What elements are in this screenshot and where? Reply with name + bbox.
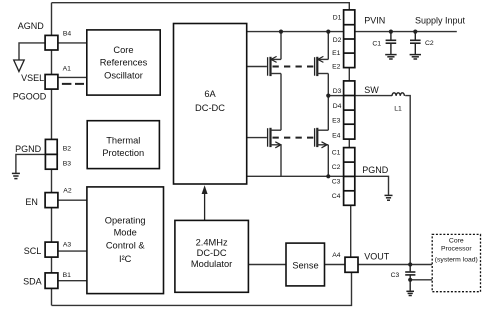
- svg-text:C2: C2: [332, 164, 341, 171]
- junction supply rail C1: [389, 30, 393, 34]
- block U4 6A DC-DC: [174, 24, 247, 185]
- transistor Q3 NMOS low-side phase1: [247, 128, 281, 177]
- svg-text:C3: C3: [332, 179, 341, 186]
- svg-text:A4: A4: [332, 252, 341, 259]
- svg-text:C1: C1: [372, 41, 381, 48]
- wire EN to Operating block: [58, 199, 87, 201]
- pin B1: [45, 273, 58, 289]
- svg-text:PGND: PGND: [362, 165, 389, 175]
- block U2 Thermal Protection: [87, 121, 159, 169]
- transistor Q1 PMOS high-side phase1: [247, 32, 281, 131]
- capacitor C2: [410, 32, 421, 54]
- stem stack3 to pin A4: [350, 205, 352, 257]
- block text 6A DC-DC: [195, 89, 225, 113]
- wire bottom bus: [52, 272, 352, 305]
- svg-text:2.4MHz: 2.4MHz: [196, 238, 228, 248]
- pin A4: [345, 257, 358, 272]
- svg-text:PGOOD: PGOOD: [13, 91, 47, 101]
- ground PGND left symbol: [12, 173, 20, 178]
- svg-text:Processor: Processor: [441, 245, 472, 252]
- svg-text:B1: B1: [63, 272, 72, 279]
- svg-text:Supply Input: Supply Input: [415, 16, 466, 26]
- svg-text:SCL: SCL: [24, 246, 42, 256]
- svg-text:PGND: PGND: [15, 144, 42, 154]
- svg-text:D4: D4: [333, 103, 342, 110]
- arrow modulator to 6A DC-DC: [202, 185, 208, 220]
- svg-text:L1: L1: [394, 105, 402, 112]
- wire A1 to Core References block: [58, 76, 87, 78]
- svg-text:A3: A3: [63, 242, 72, 249]
- wire left bus vertical: [51, 3, 53, 306]
- pin A1: [45, 75, 58, 90]
- svg-text:6A: 6A: [204, 89, 216, 99]
- pin A2: [45, 193, 58, 208]
- wire dashed gate link NMOS pair: [273, 137, 315, 139]
- block text Core References Oscillator: [100, 45, 148, 80]
- svg-text:DC-DC: DC-DC: [197, 248, 227, 258]
- wire PGND pin to ground: [16, 154, 46, 173]
- pin B3: [45, 154, 57, 169]
- svg-text:Protection: Protection: [102, 148, 144, 158]
- pin B2: [45, 139, 57, 154]
- svg-text:E3: E3: [332, 117, 341, 124]
- wire PVIN supply rail (D2 box to Supply Input): [355, 31, 457, 33]
- svg-text:VOUT: VOUT: [364, 251, 390, 261]
- junction C3 bottom return: [408, 278, 412, 282]
- block text Core Processor: [435, 238, 478, 264]
- junction PVIN rail Q2 source: [326, 30, 330, 34]
- wire dashed gate link PMOS pair: [273, 66, 315, 68]
- svg-text:References: References: [100, 58, 148, 68]
- junction node SW: [326, 94, 330, 98]
- svg-text:Oscillator: Oscillator: [104, 71, 143, 81]
- junction PVIN rail Q1 source: [279, 30, 283, 34]
- inductor L1: [392, 93, 404, 96]
- pin B4: [45, 35, 58, 50]
- svg-text:Core: Core: [113, 45, 133, 55]
- svg-text:(systerm load): (systerm load): [435, 257, 478, 264]
- svg-text:Operating: Operating: [105, 216, 146, 226]
- block U1 Core References Oscillator: [87, 30, 160, 95]
- svg-text:Modulator: Modulator: [191, 259, 232, 269]
- ground C2 symbol: [410, 55, 421, 59]
- capacitor C3: [405, 265, 415, 291]
- svg-text:SDA: SDA: [23, 277, 42, 287]
- svg-text:E2: E2: [332, 63, 341, 70]
- junction node VOUT C3 top: [408, 262, 412, 266]
- wire modulator to Sense: [248, 264, 286, 266]
- wire B4 to Core References block: [58, 42, 87, 44]
- svg-text:Control &: Control &: [106, 241, 146, 251]
- block U5 2.4MHz DC-DC Modulator: [175, 220, 249, 292]
- block U6 Sense: [286, 243, 325, 286]
- pin A3: [45, 242, 58, 257]
- svg-text:C3: C3: [391, 272, 400, 279]
- svg-text:Thermal: Thermal: [106, 135, 140, 145]
- ground PGND right symbol: [385, 195, 393, 200]
- svg-text:D3: D3: [333, 88, 342, 95]
- svg-text:Sense: Sense: [292, 261, 318, 271]
- svg-text:D2: D2: [333, 37, 342, 44]
- wire inductor to VOUT junction: [405, 96, 410, 265]
- wire PGND internal rail: [247, 175, 344, 177]
- svg-text:AGND: AGND: [18, 21, 45, 31]
- wire AGND from pin B4: [19, 43, 45, 60]
- block U7 Core Processor dashed: [432, 234, 480, 291]
- wire SCL to Operating block: [58, 250, 87, 252]
- block U3 Operating Mode Control I2C: [87, 187, 164, 294]
- block text 2.4MHz DC-DC Modulator: [191, 238, 232, 269]
- wire SW external to inductor: [355, 95, 392, 97]
- svg-text:E4: E4: [332, 133, 341, 140]
- svg-text:D1: D1: [333, 14, 342, 21]
- wire SW node to D3 stack: [328, 95, 343, 97]
- svg-text:C1: C1: [332, 149, 341, 156]
- svg-text:EN: EN: [25, 197, 38, 207]
- wire Sense to pin A4: [325, 264, 346, 266]
- ground C3 symbol: [406, 291, 414, 295]
- block text Operating Mode Control I2C: [105, 216, 146, 264]
- stem between stack1 and stack2: [348, 68, 350, 81]
- svg-text:A2: A2: [63, 188, 72, 195]
- svg-text:VSEL: VSEL: [21, 73, 44, 83]
- junction node PGND: [326, 174, 330, 178]
- wire top rail (left line to D1): [52, 3, 350, 10]
- wire SDA to Operating block: [58, 280, 87, 282]
- svg-text:A1: A1: [63, 65, 72, 72]
- block text Thermal Protection: [102, 135, 144, 158]
- wire PGND right to ground: [355, 176, 389, 195]
- transistor Q4 NMOS low-side phase2: [315, 128, 329, 177]
- wire PVIN internal rail (6A block to D2 box): [247, 31, 344, 33]
- svg-text:B2: B2: [63, 145, 72, 152]
- svg-text:E1: E1: [332, 50, 341, 57]
- wire VOUT to Core Processor: [358, 264, 432, 266]
- svg-text:C4: C4: [332, 193, 341, 200]
- svg-text:Core: Core: [449, 238, 464, 245]
- svg-text:DC-DC: DC-DC: [195, 103, 225, 113]
- stem between stack2 and stack3: [348, 139, 350, 148]
- pin stack D1 D2 E1 E2: [344, 10, 355, 68]
- transistor Q2 PMOS high-side phase2: [315, 32, 329, 131]
- ground AGND triangle: [14, 60, 25, 72]
- wire PGOOD dashed stub: [62, 83, 84, 85]
- svg-text:I²C: I²C: [119, 254, 132, 264]
- pin stack C1 C2 C3 C4: [344, 148, 355, 206]
- svg-text:C2: C2: [425, 40, 434, 47]
- svg-text:B3: B3: [63, 160, 72, 167]
- capacitor C1: [386, 32, 397, 54]
- junction supply rail C2: [413, 30, 417, 34]
- pin stack D3 D4 E3 E4: [344, 81, 355, 139]
- svg-text:B4: B4: [63, 31, 72, 38]
- wire C3 bottom to Core Processor: [410, 279, 432, 281]
- svg-text:SW: SW: [364, 85, 379, 95]
- svg-text:PVIN: PVIN: [364, 16, 385, 26]
- ground C1 symbol: [385, 55, 396, 59]
- svg-text:Mode: Mode: [114, 227, 137, 237]
